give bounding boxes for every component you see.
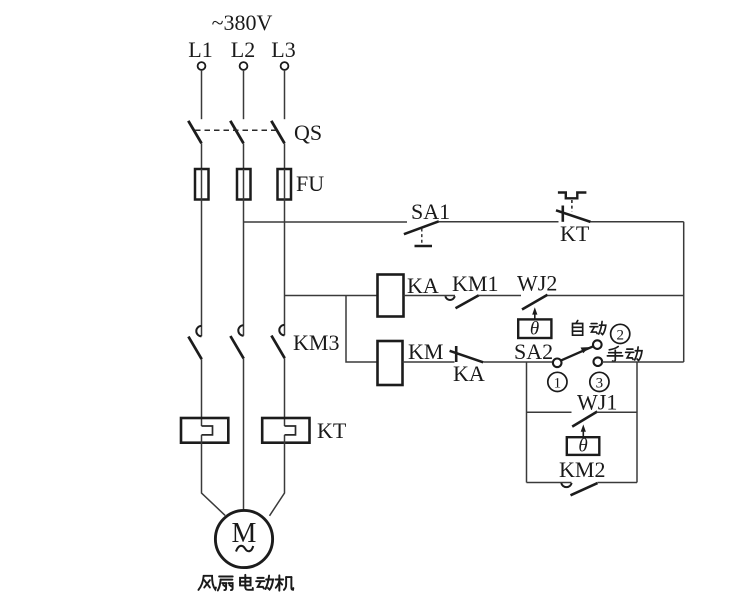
thermal relay KT heater element 1 (181, 418, 228, 443)
svg-text:L1: L1 (188, 37, 212, 62)
selector SA2 node 3 (594, 357, 603, 366)
contactor KM3 pole 3 (271, 325, 284, 358)
svg-text:SA1: SA1 (411, 199, 450, 224)
selector SA2 blade with arrow (561, 346, 594, 360)
circled number 3 (590, 372, 609, 391)
svg-text:KM: KM (408, 339, 443, 364)
svg-text:1: 1 (554, 375, 562, 391)
wire control row2 from L3 (285, 295, 378, 297)
wire QS to FU pole 3 (284, 143, 286, 169)
svg-text:WJ2: WJ2 (517, 271, 557, 296)
WJ2 actuator arrow (532, 307, 537, 319)
wire QS to FU pole 2 (243, 143, 245, 169)
wire WJ1 row right (597, 411, 638, 413)
terminal L1 (198, 62, 206, 70)
selector SA2 node 1 (553, 359, 562, 368)
svg-text:SA2: SA2 (514, 339, 553, 364)
wire SA1 to KT contact (439, 221, 559, 223)
contact KM1 (445, 295, 478, 308)
wire L2 FU to KM3 (243, 200, 245, 336)
svg-text:M: M (232, 518, 257, 549)
fuse FU pole 1 (195, 169, 209, 200)
wire KM3 to KT heater pole 1 (201, 359, 203, 426)
wire lower branch right vertical (636, 362, 638, 483)
contactor coil KM (378, 341, 403, 385)
contactor KM3 pole 1 (188, 326, 201, 359)
wire L3 FU to KM3 (284, 200, 286, 336)
terminal L2 (240, 62, 248, 70)
circled number 1 (548, 372, 567, 391)
temperature detector box θ (WJ1) (567, 436, 600, 457)
svg-text:FU: FU (296, 171, 324, 196)
motor M circle (215, 510, 272, 567)
svg-text:KT: KT (317, 418, 347, 443)
svg-text:L3: L3 (271, 37, 295, 62)
wire L1 FU to KM3 (201, 200, 203, 337)
wire lower branch left vertical (526, 362, 528, 483)
switch QS pole 1 blade (188, 121, 201, 144)
relay coil KA (378, 275, 404, 317)
svg-text:L2: L2 (231, 37, 255, 62)
wire KA coil to KM1 (404, 295, 456, 297)
wire KM1 to WJ2 (479, 295, 521, 297)
contact KA (NC) (450, 346, 484, 362)
wire KT contact to right rail (591, 221, 684, 223)
switch SA1 blade (404, 221, 439, 234)
wire heater 3 to motor (270, 435, 285, 516)
switch QS pole 2 blade (230, 121, 243, 144)
svg-text:KM1: KM1 (452, 271, 498, 296)
wire node3 to right rail (602, 361, 684, 363)
svg-text:2: 2 (616, 327, 624, 343)
wire KM3 to motor pole 2 (243, 359, 245, 511)
contact KM2 (561, 483, 597, 495)
switch SA1 dashed operator (421, 229, 423, 245)
contactor KM3 pole 2 (230, 325, 243, 358)
circled number 2 (611, 324, 630, 343)
label 自动 (auto) (573, 320, 606, 335)
svg-text:~380V: ~380V (212, 10, 273, 35)
svg-text:θ: θ (530, 319, 539, 340)
wire heater 1 to motor (202, 435, 226, 516)
label 手动 (manual) (607, 346, 642, 361)
svg-text:QS: QS (294, 120, 322, 145)
contact WJ2 blade (522, 295, 548, 310)
svg-text:KA: KA (407, 273, 439, 298)
switch QS pole 3 blade (271, 121, 284, 144)
wire KA contact to SA2 (483, 361, 553, 363)
thermal relay KT heater element 2 (262, 418, 309, 443)
wire WJ1 row left (527, 411, 572, 413)
wire control row1 from L2 (244, 221, 408, 223)
switch SA1 operator T bar (415, 245, 433, 248)
svg-text:θ: θ (578, 436, 587, 457)
wire WJ2 to right rail (548, 295, 684, 297)
wire KM2 row right (598, 482, 638, 484)
temperature detector box θ (WJ2) (518, 319, 551, 340)
label 风扇电动机 (fan motor) (198, 575, 293, 591)
svg-text:KM2: KM2 (559, 457, 605, 482)
WJ1 actuator arrow (581, 424, 586, 437)
wire L1 terminal to QS (201, 70, 203, 119)
svg-text:KA: KA (453, 361, 485, 386)
wire KM3 to KT heater pole 3 (284, 358, 286, 426)
terminal L3 (281, 62, 289, 70)
svg-text:KT: KT (560, 221, 590, 246)
fuse FU pole 3 (278, 169, 292, 200)
selector SA2 node 2 (593, 340, 602, 349)
svg-text:KM3: KM3 (293, 330, 339, 355)
right rail wire (683, 222, 685, 362)
fuse FU pole 2 (237, 169, 251, 200)
time relay KT delayed contact (556, 193, 591, 222)
svg-text:WJ1: WJ1 (577, 390, 617, 415)
wire row2 to row3 drop (346, 296, 378, 363)
motor tilde (236, 546, 253, 552)
wire L2 terminal to QS (243, 70, 245, 119)
switch QS linkage dashed line (195, 129, 278, 131)
wire KM coil to KA contact (403, 361, 455, 363)
wire QS to FU pole 1 (201, 143, 203, 169)
contact WJ1 blade (572, 412, 597, 427)
wire L3 terminal to QS (284, 70, 286, 119)
wire KM2 row left (527, 482, 572, 484)
